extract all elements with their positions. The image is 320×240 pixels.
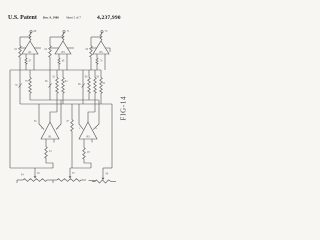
potentiometer 95 body [17, 179, 23, 181]
op-amp 83 [79, 122, 97, 139]
wire (feedback top, y=37) [20, 36, 30, 38]
resistor 64 (feedback) [49, 44, 52, 58]
wire (stub below base) [83, 139, 85, 146]
wire (feedback top, y=37) [50, 36, 63, 38]
tick label 80 [49, 84, 52, 88]
wire (right input feed amp 81) [56, 100, 61, 130]
tick label 76 [19, 84, 22, 88]
wire (left input feed amp 81) [39, 104, 44, 130]
wire (bottom bus right) [103, 167, 112, 169]
wire (right side, y=48) [67, 47, 74, 49]
wire (left stub to bus) [96, 65, 98, 70]
wire (jog to amp 81) [50, 112, 57, 122]
resistor 90 [94, 70, 96, 76]
resistor 68 (under base) [58, 57, 60, 65]
resistor 78 [29, 70, 31, 76]
terminal dot T1 [30, 31, 32, 33]
resistor 67 (under base) [25, 57, 27, 65]
svg-text:Sheet 5 of 7: Sheet 5 of 7 [66, 16, 81, 20]
wire (rail lower to bus) [90, 58, 92, 70]
wire (jog to amp 83) [88, 112, 95, 122]
resistor 93 [83, 146, 86, 160]
resistor 82 [56, 70, 58, 76]
wire (P1 end ticks) [16, 180, 18, 183]
wiper arrow P2 [69, 176, 72, 178]
resistor 62 (feedback) [19, 44, 22, 58]
wire (wiper drop P2) [69, 168, 71, 176]
wire (rail lower to bus) [49, 58, 51, 70]
potentiometer 97 body [53, 179, 57, 181]
wiper arrow P3 [102, 178, 105, 180]
wire (left stub below base) [96, 54, 98, 57]
wire (left input, y=48) [20, 47, 26, 49]
wire (chain to bottom bus) [46, 159, 53, 168]
wire (right stub to bus) [66, 54, 68, 70]
resistor 87 (mid rail) [71, 104, 73, 118]
svg-text:61: 61 [29, 50, 33, 54]
svg-text:FIG-14: FIG-14 [121, 96, 128, 121]
wire (right stub) [53, 139, 55, 143]
wire (chain to bottom bus) [84, 160, 91, 168]
resistor 84 [62, 70, 64, 76]
wire (right side, y=48) [34, 47, 41, 49]
op-amp 65 [93, 41, 109, 54]
resistor 88 [88, 70, 90, 76]
wire (left stub below base) [58, 54, 60, 57]
wire (left stub to bus) [25, 65, 27, 70]
svg-text:65: 65 [100, 50, 104, 54]
wire (x=50 drop) [49, 70, 51, 100]
resistor 91 [45, 145, 48, 159]
op-amp 81 [41, 122, 59, 139]
svg-text:Dec. 9, 1980: Dec. 9, 1980 [43, 16, 59, 20]
svg-text:63: 63 [62, 50, 66, 54]
wire (right stub to bus) [33, 54, 35, 70]
wire (bottom bus middle) [70, 167, 91, 169]
resistor 66 (feedback) [90, 44, 93, 58]
wire (mesh line B y=104) [20, 103, 112, 105]
wire (right rail) [111, 104, 113, 168]
op-amp 63 [55, 41, 71, 54]
wire (x=20 drop) [19, 70, 21, 104]
wire (left rail) [9, 70, 11, 168]
resistor 70 (under base) [96, 57, 98, 65]
potentiometer 99 body [92, 181, 95, 183]
wire (right stub) [91, 139, 93, 143]
terminal dot T2 [63, 31, 65, 33]
resistor 71 (above apex) [62, 33, 64, 41]
wire (rail upper) [90, 37, 92, 44]
wire (rail lower to bus) [19, 58, 21, 70]
tick label 86 [82, 84, 85, 88]
svg-text:83: 83 [87, 135, 91, 139]
wire (left stub to bus) [58, 65, 60, 70]
wire (wiper drop P1) [34, 168, 36, 176]
wire (right side, y=48) [105, 48, 110, 52]
svg-text:81: 81 [49, 135, 53, 139]
op-amp 61 [22, 41, 38, 54]
wire (right input feed amp 83) [93, 100, 99, 130]
wire (left input, y=48) [91, 47, 97, 49]
wire (right stub to bus) [104, 54, 106, 70]
wire (x=83 drop) [82, 70, 84, 104]
resistor 92 [100, 70, 102, 76]
wire (left stub below base) [25, 54, 27, 57]
terminal dot T3 [101, 31, 103, 33]
resistor 73 (above apex) [100, 33, 102, 41]
wire (horizontal bus y=70) [10, 69, 101, 71]
svg-text:4,237,990: 4,237,990 [97, 15, 121, 21]
resistor 69 (above apex) [29, 33, 31, 41]
wire (stub below base) [45, 139, 47, 145]
wire (rail upper) [19, 37, 21, 44]
wire (left input feed amp 83) [79, 104, 83, 130]
svg-text:U.S. Patent: U.S. Patent [8, 15, 37, 21]
wire (stray segment right of P2) [89, 180, 96, 182]
wire (mesh line A y=100) [30, 99, 99, 101]
wiper arrow P1 [34, 176, 37, 178]
wire (wiper drop P3) [102, 168, 104, 178]
wire (rail upper) [49, 37, 51, 44]
wire (feedback top, y=37) [91, 36, 101, 38]
wire (bottom bus left) [10, 167, 53, 169]
wire (left input, y=48) [50, 47, 59, 49]
